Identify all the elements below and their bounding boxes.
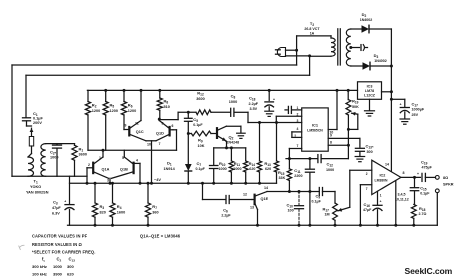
- svg-text:Q1D: Q1D: [156, 132, 164, 136]
- svg-text:C12: C12: [327, 162, 334, 168]
- svg-text:fc: fc: [42, 256, 45, 262]
- svg-text:14: 14: [264, 186, 268, 190]
- svg-text:LM565CN: LM565CN: [307, 129, 323, 133]
- svg-text:1000µF: 1000µF: [412, 108, 425, 112]
- transistor Q1C: [124, 89, 146, 141]
- svg-text:7: 7: [366, 187, 368, 191]
- capacitor C14 pin1: [285, 106, 302, 113]
- svg-text:8: 8: [162, 121, 164, 125]
- svg-text:3,4,5: 3,4,5: [398, 193, 406, 197]
- svg-text:8Ω: 8Ω: [443, 176, 448, 180]
- potentiometer R17: [323, 203, 350, 227]
- capacitor C6: [221, 192, 252, 217]
- resistor R12: [196, 91, 211, 115]
- svg-text:R18: R18: [419, 206, 426, 212]
- svg-text:1200: 1200: [128, 109, 136, 113]
- wire ground rail: [68, 224, 438, 226]
- svg-text:2: 2: [366, 172, 368, 176]
- wire IC2 input lower: [359, 185, 372, 227]
- transformer T1 primary: [28, 157, 34, 176]
- svg-text:50K: 50K: [352, 105, 359, 109]
- svg-text:LM78: LM78: [365, 89, 374, 93]
- wire IC3 input: [382, 90, 393, 93]
- terminal SPKR+: [435, 176, 439, 180]
- svg-text:1A: 1A: [310, 32, 315, 36]
- resistor R11: [233, 148, 248, 185]
- transformer T2 primary coil: [331, 36, 335, 56]
- capacitor C18: [249, 89, 276, 111]
- svg-text:2: 2: [297, 113, 299, 117]
- transformer T2 core: [338, 29, 341, 65]
- resistor R3: [92, 182, 105, 227]
- svg-text:2.2µF: 2.2µF: [249, 102, 259, 106]
- svg-text:YAN 8002SN: YAN 8002SN: [26, 191, 49, 195]
- svg-text:14: 14: [385, 163, 389, 167]
- svg-text:Q1C: Q1C: [136, 130, 144, 134]
- svg-text:510: 510: [164, 105, 170, 109]
- svg-text:C18: C18: [249, 96, 256, 102]
- pin 3 label: [297, 119, 299, 123]
- resistor R13: [264, 121, 278, 183]
- svg-text:1N4002: 1N4002: [360, 18, 373, 22]
- svg-text:2: 2: [88, 163, 90, 167]
- resistor R7: [145, 182, 158, 227]
- AC plug: [276, 48, 286, 57]
- voltage regulator IC3 box: [358, 82, 382, 100]
- svg-text:4: 4: [297, 127, 299, 131]
- wire signal line: [178, 111, 248, 114]
- svg-text:Q1A–Q1E = LM3046: Q1A–Q1E = LM3046: [140, 234, 181, 239]
- svg-text:Q1A: Q1A: [102, 168, 110, 172]
- svg-text:3600: 3600: [79, 153, 87, 157]
- svg-text:9: 9: [125, 124, 127, 128]
- svg-text:1N4002: 1N4002: [374, 59, 387, 63]
- svg-text:0.1µF: 0.1µF: [312, 200, 322, 204]
- svg-text:1000: 1000: [233, 167, 241, 171]
- svg-text:T1: T1: [34, 179, 38, 185]
- resistor R4: [110, 182, 125, 227]
- tuning slug T1: [27, 121, 34, 157]
- svg-text:33K: 33K: [279, 176, 286, 180]
- svg-text:D1: D1: [167, 161, 172, 167]
- svg-text:SPKR: SPKR: [443, 182, 454, 186]
- pin 9 wire: [328, 134, 360, 148]
- svg-text:YOKO: YOKO: [30, 185, 41, 189]
- capacitor C15: [410, 177, 430, 204]
- svg-text:26.8 VCT: 26.8 VCT: [304, 27, 320, 31]
- ground C17: [400, 119, 410, 124]
- capacitor C16: [363, 191, 382, 226]
- svg-text:C2: C2: [57, 256, 62, 262]
- svg-text:R7: R7: [152, 204, 157, 210]
- svg-text:13: 13: [250, 205, 254, 209]
- pin 8 wire: [328, 141, 350, 147]
- svg-text:1000: 1000: [326, 168, 334, 172]
- jumper pins 4-5: [292, 127, 302, 137]
- svg-text:R12: R12: [197, 91, 204, 97]
- svg-text:12: 12: [243, 192, 247, 196]
- svg-text:R2: R2: [92, 103, 97, 109]
- svg-text:R8: R8: [164, 99, 169, 105]
- wire audio line: [267, 190, 319, 193]
- wire pin7 node: [286, 157, 318, 160]
- svg-text:6: 6: [172, 124, 174, 128]
- note resistor values: [32, 242, 83, 247]
- svg-text:Q1B: Q1B: [120, 168, 128, 172]
- svg-text:1200: 1200: [110, 109, 118, 113]
- wire T2 primary bottom: [310, 56, 331, 75]
- svg-text:3.5V: 3.5V: [250, 107, 258, 111]
- wire rectifier bus: [390, 29, 393, 171]
- pin 2 label: [297, 113, 299, 117]
- svg-text:Q1E: Q1E: [261, 197, 269, 201]
- svg-text:2200: 2200: [294, 174, 302, 178]
- capacitor C10: [287, 192, 304, 227]
- svg-text:1000: 1000: [229, 100, 237, 104]
- svg-text:C8: C8: [231, 94, 236, 100]
- wire tank top: [46, 143, 75, 145]
- note select carrier: [32, 250, 95, 255]
- pin 10 wire: [328, 89, 338, 135]
- svg-text:1200: 1200: [92, 109, 100, 113]
- svg-text:0.1µF: 0.1µF: [420, 192, 430, 196]
- svg-text:+: +: [400, 102, 402, 106]
- wire to pin3: [248, 112, 302, 122]
- svg-text:L12CZ: L12CZ: [364, 93, 376, 97]
- wire IC2 input upper: [350, 170, 372, 207]
- capacitor C2: [50, 144, 62, 177]
- svg-text:C10: C10: [287, 203, 294, 209]
- svg-text:C19: C19: [421, 160, 428, 166]
- svg-text:300 kHz: 300 kHz: [32, 264, 47, 269]
- svg-text:47µF: 47µF: [363, 208, 372, 212]
- capacitor C17: [391, 99, 424, 118]
- svg-text:C11: C11: [294, 168, 300, 174]
- svg-text:R15: R15: [278, 170, 285, 176]
- resistor R1: [72, 144, 87, 177]
- ground C13: [355, 157, 365, 162]
- node R8 bottom: [158, 112, 178, 120]
- label T2: [304, 21, 320, 36]
- svg-text:7: 7: [159, 142, 161, 146]
- wire IC2 output: [401, 171, 421, 179]
- ground IC3: [365, 99, 375, 116]
- capacitor C1: [23, 111, 44, 125]
- svg-text:620: 620: [249, 167, 255, 171]
- svg-text:10: 10: [147, 143, 151, 147]
- wire Q1CD emitters: [146, 141, 161, 185]
- svg-text:8: 8: [330, 141, 332, 145]
- svg-text:100 kHz: 100 kHz: [32, 271, 47, 276]
- svg-text:−4V: −4V: [154, 177, 161, 182]
- svg-text:1: 1: [380, 194, 382, 198]
- wire T2 primary top: [297, 36, 331, 65]
- svg-text:4: 4: [136, 159, 138, 163]
- pin 7 wire: [289, 144, 301, 159]
- label SPKR: [443, 176, 454, 187]
- capacitor C7: [196, 148, 218, 185]
- center tap T2: [349, 45, 367, 51]
- diode D1: [164, 134, 192, 185]
- watermark SeekIC: [405, 266, 453, 276]
- label T1: [26, 179, 49, 195]
- svg-text:IC1: IC1: [312, 122, 319, 127]
- capacitor C13: [355, 144, 374, 157]
- wire plug to T2: [286, 49, 312, 58]
- svg-text:1600: 1600: [117, 211, 125, 215]
- svg-text:IC3: IC3: [367, 84, 373, 88]
- svg-text:475µF: 475µF: [422, 166, 433, 170]
- transistor Q1D: [156, 121, 177, 151]
- resistor R6: [121, 89, 136, 130]
- svg-text:3600: 3600: [196, 97, 204, 101]
- svg-text:D2: D2: [362, 12, 367, 18]
- ground Q2 emitter: [237, 133, 246, 138]
- wire secondary top: [351, 28, 362, 30]
- svg-text:C13*: C13*: [366, 144, 374, 150]
- svg-text:C15: C15: [420, 186, 427, 192]
- resistor R15: [278, 159, 292, 193]
- transformer T2 secondary: [346, 29, 351, 66]
- pin 14 label: [385, 163, 389, 167]
- capacitor C19: [417, 160, 436, 182]
- capacitor C8: [229, 94, 237, 117]
- wire collector bus: [88, 149, 177, 151]
- svg-text:2.7Ω: 2.7Ω: [419, 212, 427, 216]
- resistor R2: [85, 90, 100, 150]
- wire to pin2: [276, 116, 301, 122]
- table row 300kHz: [32, 264, 74, 269]
- resistor R5: [103, 89, 118, 150]
- svg-text:R5: R5: [110, 103, 115, 109]
- resistor R8: [157, 89, 170, 119]
- capacitor C11: [294, 159, 314, 227]
- svg-text:C13: C13: [69, 256, 76, 262]
- transistor Q1E: [250, 186, 269, 227]
- svg-text:2N4248: 2N4248: [227, 141, 240, 145]
- svg-text:3: 3: [107, 179, 109, 183]
- wire +V rail: [87, 89, 357, 91]
- svg-text:3: 3: [297, 119, 299, 123]
- svg-text:+: +: [380, 199, 382, 203]
- transistor Q2: [217, 126, 241, 148]
- svg-text:C6: C6: [223, 208, 228, 214]
- svg-text:C16: C16: [364, 202, 371, 208]
- svg-text:+: +: [417, 172, 419, 176]
- resistor R18: [411, 204, 426, 226]
- capacitor C12: [318, 155, 349, 172]
- note Q1A-Q1E: [140, 234, 181, 239]
- svg-text:11: 11: [135, 121, 139, 125]
- svg-text:1: 1: [297, 106, 299, 110]
- diode D2: [360, 12, 392, 33]
- capacitor C9: [312, 188, 336, 204]
- svg-text:+: +: [64, 199, 66, 203]
- svg-text:Q2: Q2: [229, 135, 234, 141]
- wire tank bottom: [12, 175, 87, 177]
- svg-text:0.1µF: 0.1µF: [196, 167, 206, 171]
- svg-text:7: 7: [297, 144, 299, 148]
- pins 3,4,5,10,11,12 ground wire: [394, 181, 408, 227]
- wire AC line top 2: [26, 75, 310, 117]
- svg-text:LM380N: LM380N: [375, 179, 389, 183]
- svg-text:C3: C3: [53, 200, 58, 206]
- svg-text:3900: 3900: [53, 271, 63, 276]
- svg-text:820: 820: [100, 211, 106, 215]
- svg-text:1: 1: [99, 156, 101, 160]
- svg-text:100: 100: [288, 209, 294, 213]
- wire C6 feed: [201, 182, 225, 200]
- svg-text:300: 300: [67, 264, 74, 269]
- svg-text:R17: R17: [323, 206, 330, 212]
- svg-text:0.1µF: 0.1µF: [193, 123, 203, 127]
- op-amp IC2 LM380N: [372, 160, 401, 194]
- resistor R10: [219, 148, 234, 185]
- svg-text:9: 9: [330, 134, 332, 138]
- potentiometer R19: [346, 89, 359, 159]
- terminal SPKR-: [435, 189, 439, 225]
- svg-text:R9: R9: [198, 138, 203, 144]
- svg-text:1M: 1M: [325, 213, 330, 217]
- IC IC1 LM565CN box: [302, 108, 329, 151]
- svg-text:360: 360: [152, 211, 158, 215]
- svg-text:10K: 10K: [198, 144, 205, 148]
- svg-text:8: 8: [403, 171, 405, 175]
- capacitor C3: [52, 176, 74, 225]
- svg-text:R6: R6: [128, 103, 133, 109]
- svg-text:CAPACITOR VALUES IN PF: CAPACITOR VALUES IN PF: [32, 233, 88, 238]
- table row 100kHz: [32, 271, 74, 276]
- svg-text:10,11,12: 10,11,12: [395, 198, 409, 202]
- table header: [42, 256, 75, 262]
- svg-text:620: 620: [67, 271, 74, 276]
- svg-text:5: 5: [122, 156, 124, 160]
- svg-text:1000: 1000: [219, 167, 227, 171]
- svg-text:200V: 200V: [33, 121, 42, 125]
- svg-text:IC2: IC2: [380, 173, 386, 177]
- transistor Q1A: [87, 149, 110, 179]
- wire AC line top 1: [12, 65, 297, 176]
- svg-text:C17: C17: [412, 102, 419, 108]
- svg-text:RESISTOR VALUES IN Ω: RESISTOR VALUES IN Ω: [32, 242, 83, 247]
- svg-text:SeekIC.com: SeekIC.com: [405, 266, 453, 276]
- svg-text:2.2µF: 2.2µF: [221, 214, 231, 218]
- svg-text:620: 620: [265, 167, 271, 171]
- svg-text:R3: R3: [100, 204, 105, 210]
- resistor R14: [249, 121, 262, 185]
- svg-text:6.3V: 6.3V: [52, 212, 60, 216]
- svg-text:1000: 1000: [50, 156, 58, 160]
- svg-text:1000: 1000: [53, 264, 63, 269]
- wire Q1A base riser: [86, 168, 89, 185]
- svg-text:R4: R4: [117, 204, 122, 210]
- svg-text:+: +: [273, 97, 275, 101]
- diode D3: [363, 53, 393, 70]
- svg-text:47µF: 47µF: [52, 206, 61, 210]
- wire -4V rail: [70, 177, 277, 183]
- transformer T1 secondary: [41, 144, 46, 177]
- resistor R9: [187, 131, 216, 148]
- ground C18: [265, 111, 274, 116]
- svg-text:0.1µF: 0.1µF: [33, 117, 43, 121]
- svg-text:300: 300: [367, 150, 373, 154]
- transistor Q1B: [112, 150, 142, 185]
- wire Q1AB emitter: [107, 178, 112, 184]
- wire Q2 collector bus: [214, 146, 246, 149]
- capacitor C5: [185, 112, 204, 133]
- note capacitor values: [32, 233, 88, 238]
- wire secondary bottom: [351, 65, 363, 67]
- svg-text:25V: 25V: [412, 113, 419, 117]
- svg-text:*SELECT FOR CARRIER FREQ.: *SELECT FOR CARRIER FREQ.: [32, 250, 95, 255]
- svg-text:1N914: 1N914: [164, 167, 176, 171]
